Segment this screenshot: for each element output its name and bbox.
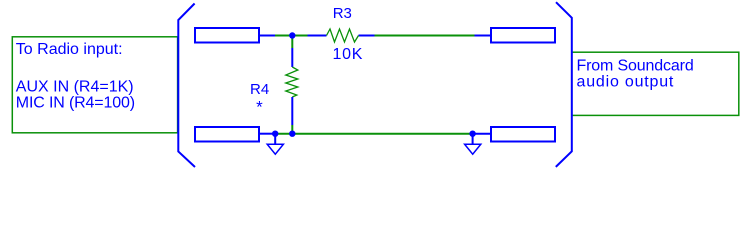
svg-text:MIC IN (R4=100): MIC IN (R4=100): [16, 95, 135, 112]
svg-text:R3: R3: [333, 5, 352, 22]
svg-text:*: *: [256, 97, 263, 116]
svg-text:AUX IN (R4=1K): AUX IN (R4=1K): [16, 79, 134, 96]
svg-text:To Radio input:: To Radio input:: [16, 41, 123, 58]
svg-text:R4: R4: [250, 81, 269, 98]
svg-text:10K: 10K: [333, 46, 364, 63]
svg-text:From Soundcard: From Soundcard: [577, 58, 694, 75]
svg-text:audio output: audio output: [577, 73, 675, 90]
